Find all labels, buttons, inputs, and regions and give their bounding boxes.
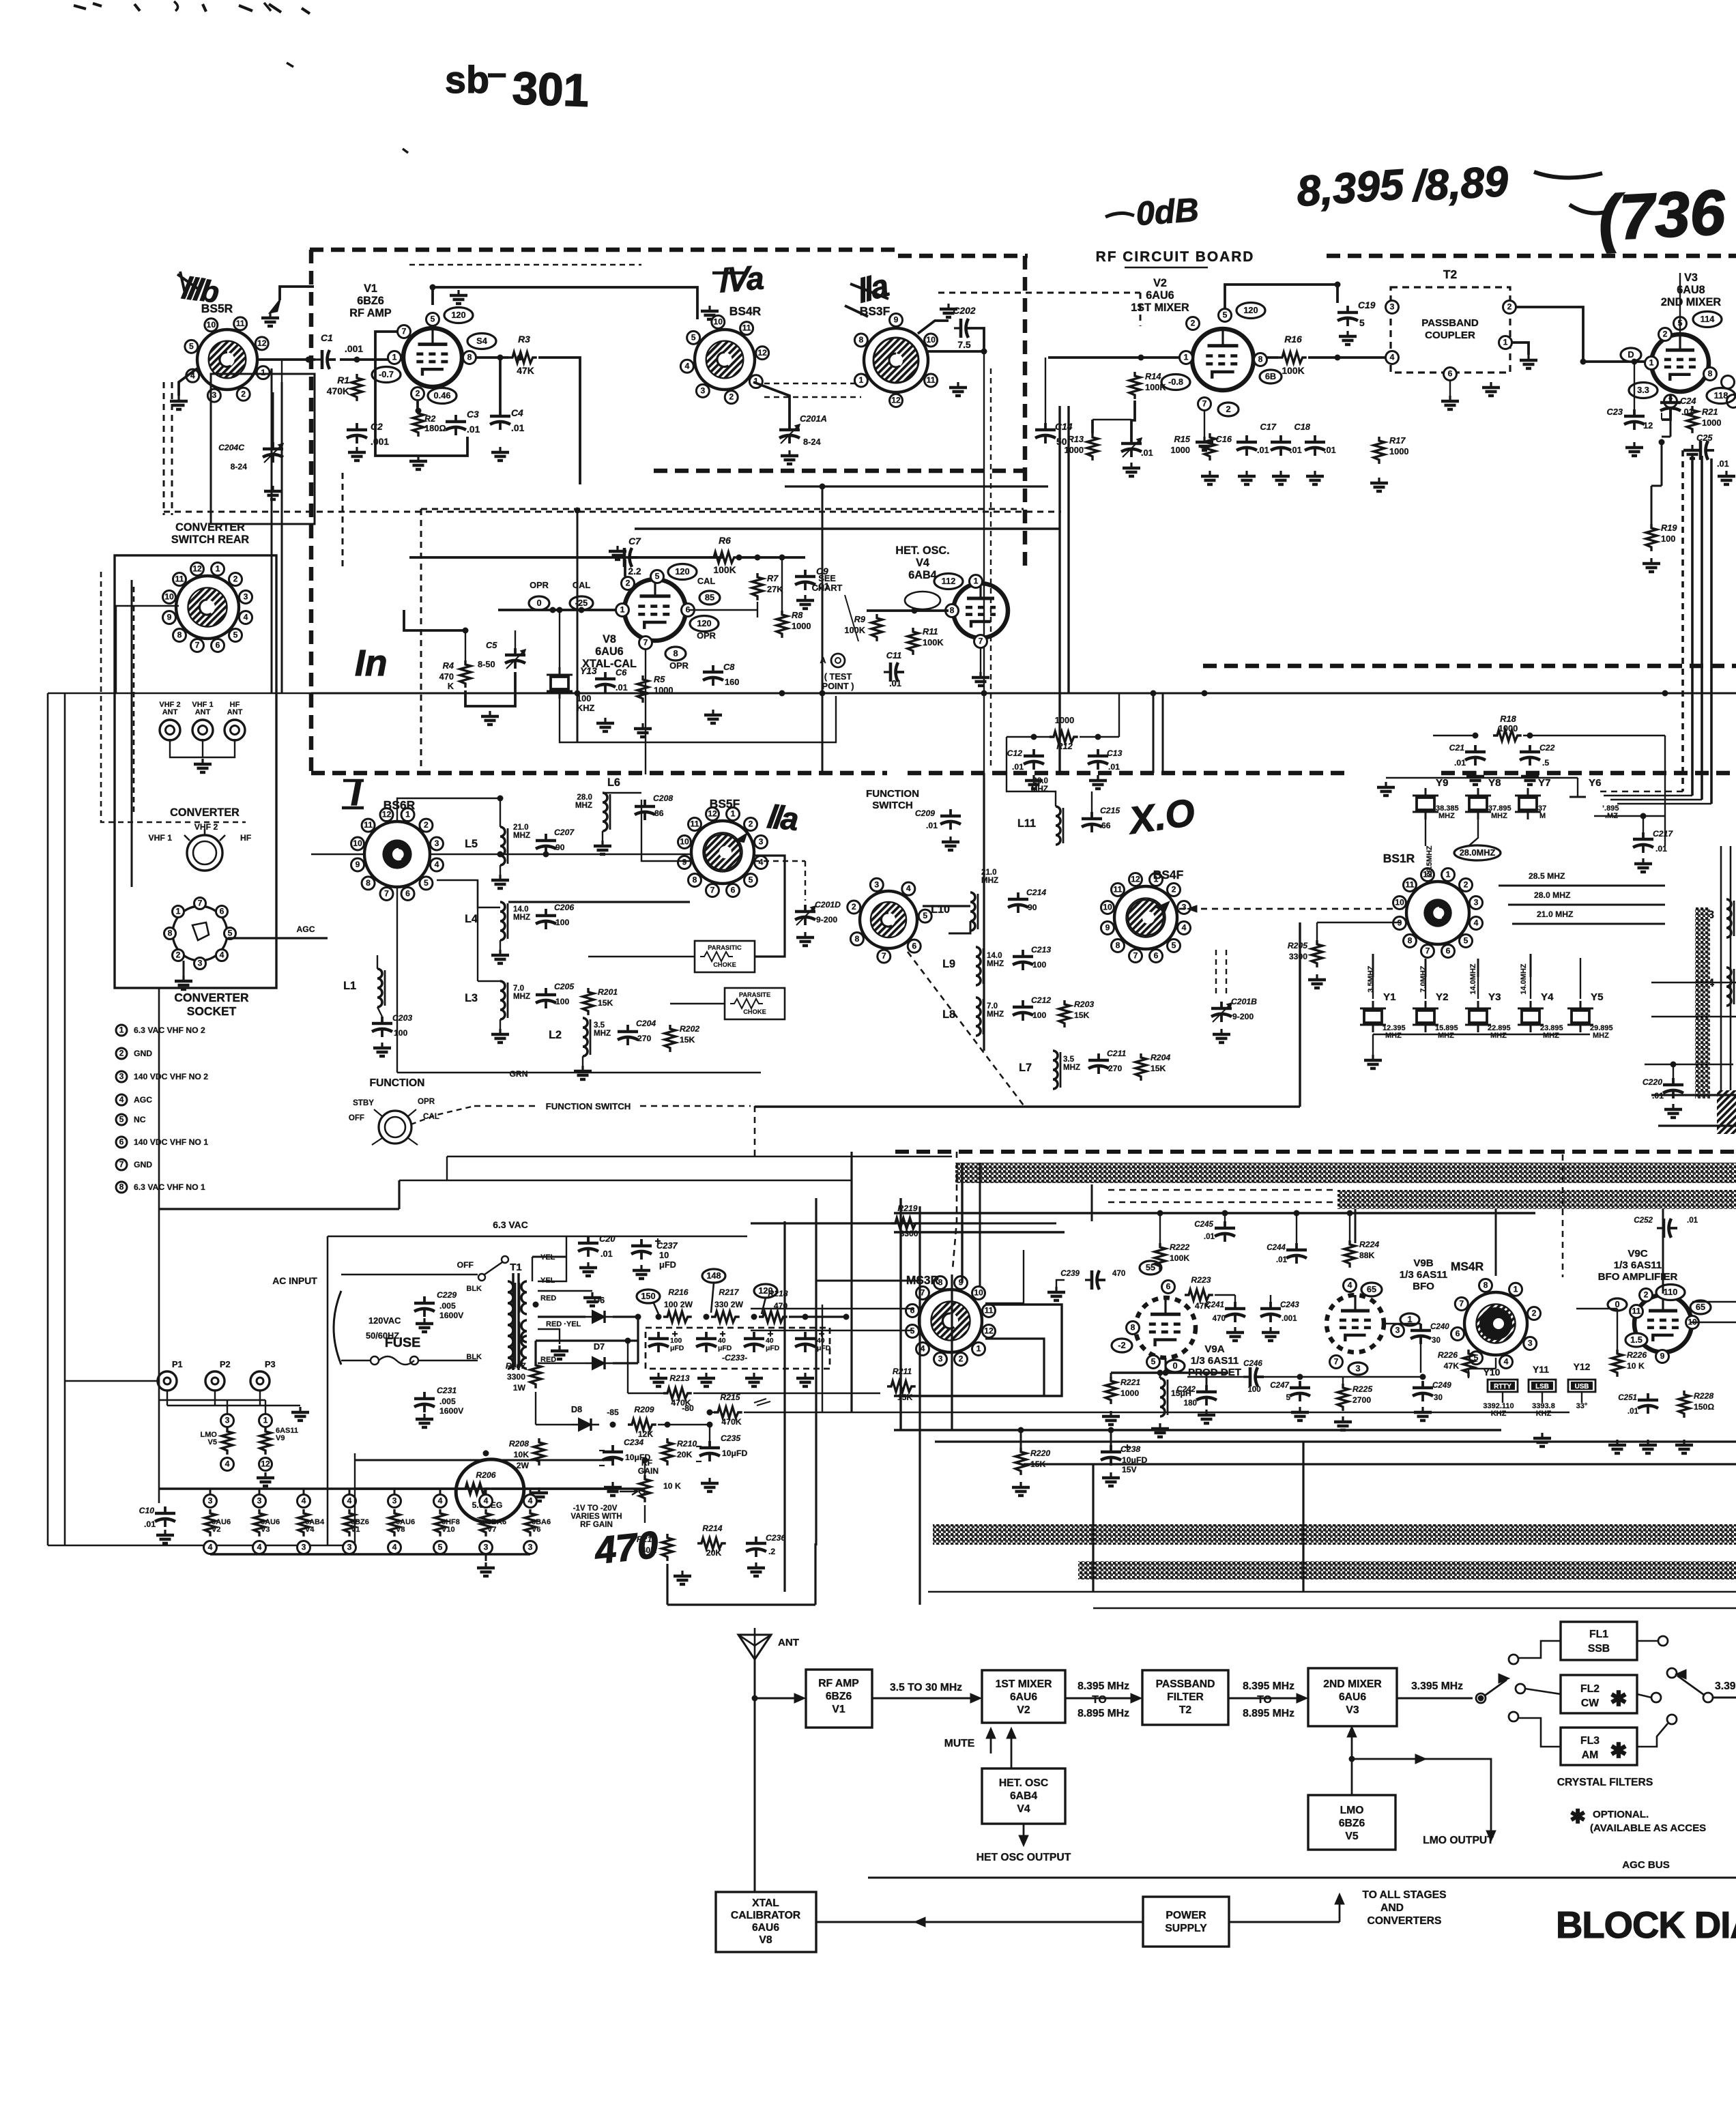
svg-text:BS4R: BS4R [729,304,762,318]
vertical x585 [398,1180,400,1209]
svg-text:8.395 MHz: 8.395 MHz [1077,1680,1129,1692]
svg-text:C2: C2 [371,421,383,432]
svg-text:R213: R213 [669,1373,689,1383]
svg-text:.001: .001 [345,343,363,354]
crystal Y8 [1469,798,1487,810]
electrolytic 40UFD b [753,1332,755,1339]
svg-text:R222: R222 [1170,1242,1189,1252]
svg-text:GAIN: GAIN [638,1466,659,1476]
capacitor C206 [545,909,547,916]
svg-text:11: 11 [364,820,373,830]
svg-text:CHART: CHART [812,583,843,593]
V8 pin 5 [651,570,664,583]
capacitor C23 [1633,409,1636,416]
right bundle vertical 2 [1691,453,1694,796]
ground under C2 [356,447,358,452]
svg-text:4: 4 [1504,1357,1509,1367]
svg-text:90: 90 [1028,903,1037,912]
svg-text:6BZ6: 6BZ6 [1339,1818,1365,1829]
svg-text:8-50: 8-50 [478,659,495,669]
svg-text:R7: R7 [767,573,779,583]
svg-text:L5: L5 [465,838,478,850]
svg-text:2: 2 [852,902,856,912]
svg-text:6BZ6: 6BZ6 [357,295,384,307]
capacitor C207 [545,834,547,841]
block PASSBAND FILTER T2 [1142,1670,1228,1725]
svg-text:BS5F: BS5F [710,797,740,811]
ground under R2 [417,456,419,461]
svg-text:AC INPUT: AC INPUT [272,1275,317,1286]
svg-text:8.895 MHz: 8.895 MHz [1243,1708,1294,1719]
svg-text:C231: C231 [437,1386,457,1395]
svg-text:R226: R226 [1438,1350,1458,1360]
feedback wire box V1 [375,332,467,456]
wire R13 C15 cluster [1091,420,1094,433]
wire C1 to V1 [340,358,402,361]
svg-text:-C233-: -C233- [722,1353,747,1363]
svg-text:C18: C18 [1294,422,1311,432]
coil L8 [976,998,981,1036]
dashed from knob [411,1106,474,1124]
svg-text:L2: L2 [549,1029,562,1041]
svg-text:8: 8 [950,606,955,615]
svg-text:4: 4 [484,1496,489,1506]
right bundle vertical 1 [1681,450,1684,791]
svg-text:7.5: 7.5 [957,339,971,350]
svg-text:R6: R6 [719,535,731,546]
svg-text:3: 3 [1390,302,1395,312]
diode D8 [579,1418,591,1431]
svg-text:7: 7 [979,637,983,646]
svg-text:V9A: V9A [1204,1343,1224,1355]
svg-text:AGC: AGC [296,925,315,934]
svg-text:.01: .01 [1687,1216,1698,1225]
svg-text:20K: 20K [706,1548,722,1558]
svg-text:FUNCTION: FUNCTION [866,788,919,800]
svg-text:5: 5 [1223,310,1228,320]
svg-text:MS4R: MS4R [1451,1260,1484,1273]
svg-text:1/3 6AS11: 1/3 6AS11 [1400,1269,1448,1281]
svg-text:FILTER: FILTER [1167,1691,1204,1703]
svg-text:GRN: GRN [509,1069,527,1079]
svg-text:MHZ: MHZ [513,992,530,1001]
svg-text:2: 2 [1663,330,1668,339]
svg-text:5: 5 [923,911,927,920]
svg-text:ANT: ANT [195,708,211,716]
svg-text:R9: R9 [854,614,866,624]
svg-text:2: 2 [1507,302,1512,312]
resistor R1 [351,374,362,401]
svg-text:3: 3 [1474,898,1479,907]
svg-text:OFF: OFF [457,1260,474,1270]
svg-text:HET. OSC.: HET. OSC. [895,544,949,557]
svg-text:C10: C10 [139,1506,155,1515]
svg-text:11: 11 [691,819,699,829]
wire R213 [628,1393,663,1394]
V9B pin 7 [1330,1356,1343,1369]
resistor R216 100 2W [663,1311,692,1322]
svg-text:1: 1 [1649,358,1654,368]
svg-text:1000: 1000 [792,621,811,631]
svg-text:.01: .01 [1108,762,1120,772]
svg-text:C214: C214 [1026,888,1046,897]
svg-text:L6: L6 [607,776,620,789]
svg-text:R4: R4 [443,660,454,671]
light dashed V8 box left [420,509,422,770]
grounds C241 C243 [1234,1327,1236,1333]
svg-text:100: 100 [1661,534,1675,544]
svg-text:10: 10 [353,839,362,848]
wire V2 plate top [1225,285,1337,308]
left vertical x233 [158,988,160,1503]
rotary BS6R [364,821,430,887]
capacitor C243 .001 [1269,1302,1272,1309]
svg-text:TO: TO [1092,1694,1107,1706]
mid heavy dashed line y1133 a [311,771,887,776]
svg-text:C236: C236 [766,1533,785,1543]
ground under C19 [1346,331,1348,336]
svg-text:V6: V6 [532,1526,540,1534]
svg-text:85: 85 [705,592,714,602]
svg-text:R209: R209 [634,1405,654,1414]
wire down-left bundle at x523 [281,360,283,382]
svg-text:RF GAIN: RF GAIN [580,1520,613,1529]
svg-text:C242: C242 [1176,1385,1196,1394]
svg-text:270: 270 [1108,1064,1123,1073]
resistor R3 [508,352,537,363]
mid heavy dashed line y1133 c [1441,771,1736,776]
svg-text:40: 40 [718,1337,726,1345]
svg-text:C211: C211 [1107,1049,1126,1058]
V8 pin 2 [622,577,635,590]
filter input wires [1518,1641,1561,1658]
ground under socket [182,976,184,981]
antenna symbol ANT [738,1635,771,1659]
rotary FUNCTION SWITCH [860,891,917,948]
electrolytic C238 [1110,1445,1112,1452]
svg-text:11: 11 [1406,880,1415,890]
crystal Y13 [551,677,568,689]
wire RF AMP to 1ST MIXER [872,1698,979,1700]
heater 6HF8 V10 [434,1495,447,1508]
svg-text:C11: C11 [886,650,902,660]
svg-text:1: 1 [261,368,265,377]
svg-text:R203: R203 [1074,1000,1094,1009]
svg-text:C237: C237 [656,1240,678,1251]
svg-text:MUTE: MUTE [944,1738,974,1749]
het osc output arrow [1023,1824,1025,1842]
crystal Y6 lead [1577,778,1578,797]
wire V3 pin7 cluster [1662,408,1670,420]
svg-text:R215: R215 [720,1393,740,1402]
svg-text:1: 1 [620,605,625,615]
T2 pin6 ground [1449,396,1451,401]
svg-text:PASSBAND: PASSBAND [1421,317,1479,329]
svg-text:CHOKE: CHOKE [713,961,736,968]
coil L9 [976,947,981,985]
capacitor C217 [1642,832,1645,839]
bus y713 below BS3F [785,485,1048,487]
ground under L2 [581,1066,583,1071]
svg-text:In: In [355,643,387,684]
V2 callout 120 [1236,303,1265,319]
svg-text:.01: .01 [1717,458,1729,469]
svg-text:8: 8 [1484,1281,1488,1290]
svg-text:COUPLER: COUPLER [1425,330,1475,341]
svg-text:100: 100 [1032,1010,1047,1020]
svg-text:MHZ: MHZ [1385,1032,1402,1040]
variable capacitor C201B [1220,1002,1223,1008]
stipple band 2 [933,1524,1736,1545]
svg-text:KHZ: KHZ [1491,1410,1507,1418]
svg-text:C215: C215 [1100,806,1120,815]
svg-text:MHZ: MHZ [1593,1032,1609,1040]
wire V8 pin7 down [645,650,646,774]
svg-text:2: 2 [729,392,734,402]
wire C220 [1673,1064,1674,1078]
wire R3 right then down [538,358,580,484]
svg-text:470: 470 [1213,1314,1226,1323]
svg-text:GND: GND [134,1049,152,1058]
svg-text:8: 8 [366,878,371,888]
left long vertical x95 [64,693,66,1545]
IF bus y2096 [894,1429,1501,1431]
heater 6AS11 V9 [259,1414,272,1427]
V2 pin 1 [1180,351,1193,364]
svg-text:V9C: V9C [1627,1248,1647,1260]
diode D7 [592,1357,605,1369]
svg-text:C208: C208 [653,794,673,803]
horizontal y775 [635,527,1060,529]
function knob [379,1111,411,1144]
svg-text:8: 8 [119,1182,124,1192]
svg-text:.005: .005 [439,1301,456,1311]
wire R219 [751,1222,891,1224]
svg-text:10: 10 [1395,898,1404,907]
svg-text:HF: HF [240,833,251,843]
svg-text:7: 7 [198,899,203,908]
svg-text:-2: -2 [1118,1340,1125,1350]
svg-text:ANT: ANT [778,1637,800,1648]
svg-text:100: 100 [1247,1385,1260,1394]
stipple band 3 [1078,1561,1736,1579]
wire V8 bottom loop [560,696,836,742]
ground top-left arrow [270,300,280,312]
svg-text:1000: 1000 [1065,445,1084,455]
IF vertical x1910 [1302,1442,1304,1592]
svg-text:C6: C6 [616,667,627,678]
svg-text:29.5MHZ: 29.5MHZ [1426,845,1434,877]
svg-text:11: 11 [985,1306,994,1315]
svg-text:470K: 470K [671,1398,691,1408]
capacitor C249 30 [1421,1381,1424,1388]
ground under C23 [1633,442,1635,448]
svg-text:KHZ: KHZ [577,703,594,713]
electrolytic C237 [640,1239,643,1246]
svg-text:R15: R15 [1174,434,1191,444]
svg-text:R14: R14 [1145,371,1161,381]
electrolytic 100UFD [657,1332,660,1339]
wire V8 to V4 top [689,609,757,611]
svg-text:10: 10 [1103,903,1112,912]
lmo branch right [1352,1759,1491,1837]
V9C callout 110 [1656,1285,1685,1300]
wire RED2 to D7 [538,1363,585,1364]
light dashed over BS3F to V2 [938,292,1140,294]
V8 pin 7 [639,637,652,650]
svg-text:MHZ: MHZ [987,959,1004,968]
wire R215 row [710,1412,714,1413]
grounds C21 C22 [1474,771,1476,776]
coil L14 [1726,967,1731,1006]
svg-text:100: 100 [670,1337,682,1345]
svg-text:C202: C202 [953,305,975,316]
svg-text:5: 5 [431,315,435,324]
stipple band 1a [955,1163,1736,1183]
light dashed shield x1452 [990,368,992,770]
svg-text:86: 86 [654,809,664,818]
svg-text:120: 120 [1243,305,1258,315]
svg-text:4: 4 [438,1496,443,1506]
svg-text:OPR: OPR [697,630,716,641]
jack P1 [158,1371,177,1391]
resistor R15 [1204,433,1215,461]
svg-text:33°: 33° [1576,1402,1588,1410]
svg-text:( TEST: ( TEST [824,671,852,682]
converter socket [173,906,227,961]
parasitic choke box 2 [725,988,785,1019]
wire rf gain [644,1460,646,1475]
callout 148 [702,1269,725,1283]
svg-text:C207: C207 [554,828,575,837]
heater 6BZ6 V1 [343,1495,356,1508]
wire antenna down [754,1659,756,1892]
svg-text:4: 4 [220,950,225,960]
resistor R6 [710,552,738,563]
svg-text:KHZ: KHZ [1536,1410,1552,1418]
T2 pin 6 [1444,368,1457,381]
svg-text:D7: D7 [594,1341,605,1352]
svg-text:D: D [1627,349,1634,360]
svg-text:R224: R224 [1359,1240,1379,1249]
svg-text:OFF: OFF [349,1113,364,1122]
svg-text:.005: .005 [439,1397,456,1406]
svg-text:10 K: 10 K [1627,1361,1645,1371]
RF board dashed horizontal y690 [654,469,1025,474]
svg-text:6.3 VAC VHF NO 2: 6.3 VAC VHF NO 2 [134,1025,205,1035]
crystal Y4 [1522,1010,1539,1023]
svg-text:C204C: C204C [218,443,244,452]
capacitor C19 [1346,306,1349,312]
svg-text:1000: 1000 [1499,723,1518,733]
svg-text:3300: 3300 [899,1229,918,1238]
scan smudges top-left corner [74,3,310,14]
svg-text:3: 3 [759,837,764,847]
capacitor C17 [1279,435,1282,442]
wire r212 row [666,1564,668,1605]
svg-text:5: 5 [228,929,233,938]
ground under C237 [640,1265,642,1270]
svg-text:2: 2 [176,950,181,960]
svg-text:7: 7 [1334,1357,1339,1367]
svg-text:3: 3 [347,1543,352,1552]
svg-text:TO ALL STAGES: TO ALL STAGES [1362,1889,1446,1901]
svg-text:8: 8 [1708,369,1713,379]
svg-text:CW: CW [1581,1698,1599,1709]
svg-text:C252: C252 [1634,1216,1653,1225]
band wires row1 [431,854,690,855]
block XTAL CALIBRATOR 6AU6 V8 [716,1892,816,1952]
svg-text:3: 3 [938,1354,943,1364]
ground under C229 C231 [423,1318,425,1324]
svg-text:6: 6 [119,1137,124,1147]
stipple vertical band right [1695,907,1710,1098]
V9C callout 65 [1690,1300,1711,1314]
svg-text:–: – [487,53,506,92]
svg-text:V2: V2 [212,1526,220,1534]
svg-text:MHZ: MHZ [594,1029,611,1038]
svg-text:BS5R: BS5R [201,302,233,315]
svg-text:15K: 15K [897,1393,913,1402]
V4 pin 1 [970,575,983,588]
svg-text:OPR: OPR [669,660,689,671]
svg-text:6B: 6B [1265,371,1276,381]
block LMO 6BZ6 V5 [1308,1795,1395,1850]
svg-text:27K: 27K [767,584,783,594]
svg-text:Y11: Y11 [1533,1364,1549,1375]
svg-text:100K: 100K [713,564,736,575]
svg-text:100: 100 [1032,960,1047,970]
svg-text:R1: R1 [337,375,349,385]
V9A pin 6 [1162,1281,1175,1294]
svg-text:2: 2 [424,820,429,830]
svg-text:150Ω: 150Ω [1694,1402,1714,1412]
rotary BS1R [1406,882,1469,944]
svg-text:AM: AM [1582,1749,1598,1761]
svg-text:C7: C7 [628,536,641,547]
lmo to mixer arrow [1351,1730,1353,1795]
AGC bus line [868,1877,1736,1879]
svg-text:sb: sb [445,59,489,101]
capacitor C1 [315,358,322,360]
svg-text:M: M [1539,812,1546,820]
svg-text:R16: R16 [1284,334,1302,345]
wire V8 pin1 left [498,609,616,611]
svg-text:ANT: ANT [227,708,243,716]
svg-text:Y5: Y5 [1591,991,1603,1003]
ground under C204C [272,486,274,491]
svg-text:11: 11 [742,323,751,333]
svg-text:20K: 20K [677,1450,693,1459]
wire R206 bus [355,1487,461,1489]
svg-text:3.395: 3.395 [1715,1680,1736,1692]
capacitor C13 [1097,749,1099,756]
svg-text:SSB: SSB [1588,1643,1610,1655]
resistor R201 15K [583,988,594,1015]
parasitic choke box 1 [695,941,755,972]
svg-text:7: 7 [1202,399,1207,409]
svg-text:V4: V4 [1017,1803,1030,1815]
ANT jacks common wire [170,739,235,757]
svg-text:.01: .01 [1655,844,1667,854]
ground under C10 [164,1530,166,1535]
IF vertical x1602 [1092,1464,1094,1592]
svg-text:.01: .01 [1627,1407,1639,1416]
resistor R7 27K [752,573,763,600]
V1 callout S4 [467,334,496,349]
svg-text:MHZ: MHZ [1543,1032,1559,1040]
wire V2 pin8 to R16 to T2 [1267,356,1278,359]
